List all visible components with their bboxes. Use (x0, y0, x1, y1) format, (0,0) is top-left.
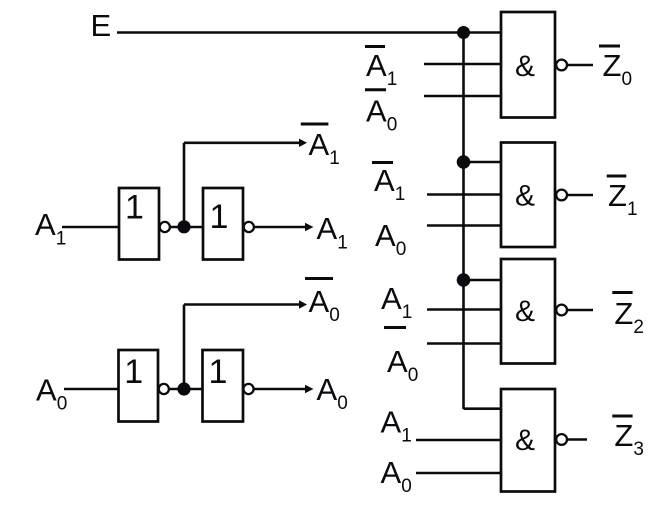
inverter U1 output bubble (160, 222, 170, 232)
NAND3 output bubble (556, 305, 567, 316)
wire A1 input (62, 226, 119, 229)
wire enable bus vertical (462, 33, 465, 410)
wire A0 input (64, 388, 119, 391)
NAND2 output bubble (556, 190, 567, 201)
overbar of A1bar (inverter) (301, 123, 329, 126)
junction dot J3 NAND3 (457, 273, 471, 287)
overbar of Z1bar (607, 175, 627, 178)
inverter U2 output bubble (244, 222, 254, 232)
inverter U4 box (203, 350, 244, 422)
inverter U4 output bubble (243, 384, 253, 394)
wire NAND2 input 2 (427, 193, 501, 196)
wire inverter U1 to U2 (170, 226, 203, 229)
wire NAND3 input 1 (464, 279, 502, 282)
overbar of A1bar at NAND1 (365, 45, 385, 48)
wire inverter U3 to U4 (168, 388, 203, 391)
arrowhead A1bar (299, 139, 307, 147)
wire NAND2 input 3 (427, 224, 501, 227)
inverter U3 box (119, 350, 159, 422)
overbar of Z2bar (612, 291, 632, 294)
svg-text:E: E (91, 8, 112, 43)
svg-text:1: 1 (209, 353, 228, 391)
wire NAND4 input 2 (416, 439, 501, 442)
NAND gate G4 box (501, 389, 555, 492)
arrowhead A0bar (299, 300, 307, 308)
arrowhead A0 output (305, 385, 314, 393)
junction dot A1bar node (177, 220, 190, 233)
svg-text:1: 1 (124, 353, 143, 391)
wire NAND2 output (567, 194, 593, 197)
svg-text:1: 1 (125, 189, 144, 227)
arrowhead A1 output (305, 223, 314, 231)
wire A0 output (254, 388, 306, 391)
NAND gate G2 box (501, 143, 555, 248)
wire NAND3 output (567, 309, 593, 312)
wire NAND2 input 1 (464, 161, 502, 164)
inverter U1 box (119, 188, 159, 260)
wire NAND3 input 2 (427, 308, 501, 311)
wire E horizontal (117, 31, 501, 34)
wire A1bar horizontal (184, 142, 299, 145)
svg-text:1: 1 (210, 198, 229, 236)
svg-text:&: & (515, 50, 535, 83)
svg-text:&: & (515, 180, 535, 213)
junction dot J1 on E wire (457, 26, 470, 39)
overbar of Z3bar (612, 415, 632, 418)
svg-text:&: & (515, 424, 535, 457)
wire NAND1 input 3 (424, 95, 501, 98)
wire A0bar horizontal (184, 303, 299, 306)
wire NAND3 input 3 (427, 342, 501, 345)
NAND4 output bubble (556, 434, 567, 445)
svg-text:&: & (515, 295, 535, 328)
wire NAND1 output (567, 64, 593, 67)
wire NAND1 input 2 (424, 63, 501, 66)
inverter U3 output bubble (159, 384, 169, 394)
overbar of A1bar at NAND2 (372, 161, 393, 164)
wire A0bar vertical (183, 305, 186, 390)
overbar of Z0bar (599, 45, 620, 48)
junction dot J2 NAND2 (457, 155, 471, 169)
wire A1 output (254, 226, 306, 229)
wire NAND4 output (567, 438, 587, 441)
NAND gate G3 box (501, 259, 555, 364)
inverter U2 box (203, 188, 243, 260)
wire bus to NAND4 top input (464, 407, 502, 410)
wire A1bar vertical (183, 143, 186, 227)
NAND1 output bubble (556, 60, 567, 71)
overbar of A0bar at NAND1 (365, 88, 386, 91)
wire NAND4 input 3 (416, 472, 501, 475)
overbar of A0bar at NAND3 (384, 326, 406, 329)
overbar of A0bar (inverter) (305, 277, 333, 280)
NAND gate G1 box (501, 12, 555, 118)
junction dot A0bar node (177, 382, 190, 395)
